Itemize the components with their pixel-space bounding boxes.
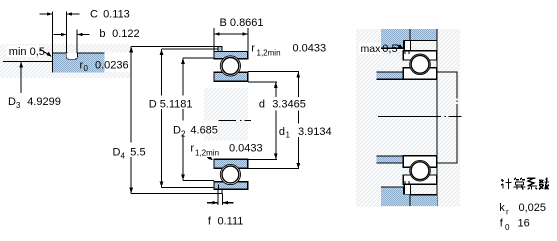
shaft shoulder top (blue) [377,72,404,79]
svg-text:1: 1 [286,131,291,140]
snap ring tab top (blue) [218,46,222,51]
计 [501,180,504,189]
r12 bottom leader arrow [207,157,211,160]
svg-text:D 5.1181: D 5.1181 [149,98,193,110]
hatch band middle bore [204,88,248,157]
D2 reference bottom [183,179,214,181]
d reference bottom [248,158,277,160]
label min 0,5 with white box [7,46,43,58]
bearing outer ring bottom [403,175,437,184]
groove circle top [220,56,240,76]
B extension lines [214,28,248,52]
housing bottom band [381,195,437,206]
snap ring bottom (white) [404,184,410,194]
svg-text:0,025: 0,025 [519,202,547,214]
center line middle [219,119,252,121]
snap ring groove slot line bottom [218,185,220,190]
inner ring top half [214,72,248,81]
snap ring tab bottom (white) [218,189,222,193]
ball bottom right [411,162,429,180]
white gap under housing lobe [379,49,403,51]
svg-text:0: 0 [505,223,510,232]
snap ring top (white) [404,40,410,50]
bearing outer ring top (white) [403,51,437,60]
svg-text:5.5: 5.5 [130,147,145,159]
d reference top [248,81,277,83]
outer ring top half [214,52,248,59]
svg-text:D: D [113,147,121,159]
D4 reference top [131,45,222,47]
label max 0,5 [359,43,381,54]
d1 reference bottom [248,168,299,170]
groove circle bottom [220,164,240,184]
inner ring bottom half [214,159,248,168]
svg-text:C: C [90,8,98,20]
svg-text:k: k [499,202,505,214]
d1 dimension line [297,72,299,169]
svg-text:d: d [279,126,285,138]
D3 reference line (groove diameter) [3,61,53,63]
white gap above housing lobe bottom [379,185,403,186]
D reference bottom [162,187,215,189]
housing top band [381,29,437,40]
shaft shoulder bottom (blue) [377,156,404,163]
svg-text:0.0433: 0.0433 [229,143,263,155]
groove circle top right [410,54,431,75]
housing face line bottom [409,195,411,206]
f dimension arrows [207,202,234,204]
svg-text:r: r [190,143,194,155]
block outline: left edge, top edge, groove walls [53,53,105,73]
D4 reference bottom [131,192,222,194]
leader min 0,5 [41,50,51,56]
svg-text:1,2min: 1,2min [195,149,219,158]
svg-text:2: 2 [181,129,186,138]
svg-text:D: D [8,96,16,108]
B dimension line [214,33,248,35]
ball top [222,58,239,75]
housing bottom outline [381,187,437,195]
d dimension line [275,82,277,159]
housing top outline [381,40,437,48]
outer ring bottom half [214,182,248,189]
housing top left lobe [381,40,403,48]
svg-text:r: r [506,208,509,217]
svg-text:min 0,5: min 0,5 [9,46,45,58]
white label boxes [147,96,195,110]
shaft outline right [437,72,457,163]
svg-text:4.685: 4.685 [190,125,218,137]
extension line L1 (ring face) [52,12,54,54]
svg-text:r: r [251,43,255,55]
数 [539,178,549,190]
snap ring groove slot bottom-right ring [405,181,409,185]
svg-text:4.9299: 4.9299 [27,96,61,108]
white label box r0 [104,52,131,72]
groove circle bottom right [410,160,431,181]
D3 dimension line with up arrow [20,62,22,94]
housing face line top [409,29,411,40]
系 [527,178,537,190]
ball bottom [222,166,239,183]
svg-text:0.122: 0.122 [112,28,140,40]
svg-text:b: b [99,28,105,40]
svg-text:1,2min: 1,2min [257,49,281,58]
svg-text:0.0236: 0.0236 [95,59,129,71]
D2 dimension line [182,58,184,180]
svg-text:0.0433: 0.0433 [293,43,327,55]
bearing inner ring top (white) [403,68,437,79]
svg-text:0: 0 [84,64,89,73]
D reference top [162,48,219,50]
svg-text:4: 4 [121,151,126,160]
ball top right [411,55,429,73]
bearing inner ring bottom [403,156,437,167]
svg-text:max: max [361,43,382,55]
hatch background left detail [0,44,130,78]
svg-text:B 0.8661: B 0.8661 [220,17,264,29]
svg-text:d: d [259,99,265,111]
hatch background right [356,29,460,207]
svg-text:0.113: 0.113 [103,8,130,20]
svg-text:0,5: 0,5 [382,43,397,55]
dimension C line + arrows [40,13,80,15]
计算系数 (drawn strokes) [501,178,549,190]
svg-text:0.111: 0.111 [218,216,244,228]
svg-text:D: D [173,125,181,137]
svg-text:3: 3 [16,101,21,110]
svg-text:3.9134: 3.9134 [298,126,332,138]
svg-text:16: 16 [518,218,530,230]
snap ring groove slot top-right ring [405,51,409,54]
svg-text:3.3465: 3.3465 [272,99,306,111]
dimension b line + arrows [54,34,90,36]
extension line L3 (groove right wall) [76,30,78,54]
full height face line right [436,29,438,206]
D dimension line [161,49,163,188]
outer ring groove block (blue) [53,53,105,73]
算 [514,178,526,190]
D4 dimension line [130,46,132,193]
housing bottom left lobe [381,187,403,195]
center line right [378,116,462,118]
d1 reference top [248,71,299,73]
D2 reference top [183,57,214,59]
groove slot white interior [67,53,78,59]
leader max 0,5 [396,45,401,48]
f extension lines [218,193,222,204]
extension line L2 (groove left wall) [66,12,68,54]
